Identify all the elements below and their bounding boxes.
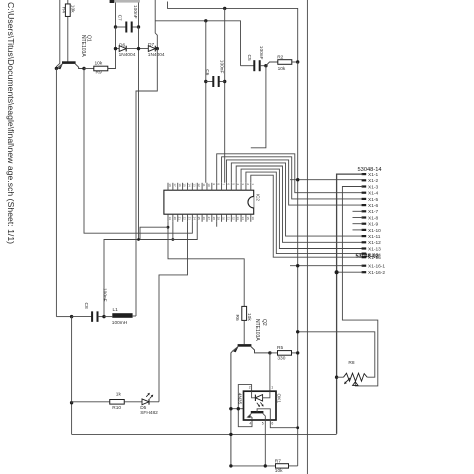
svg-text:6: 6	[271, 421, 273, 425]
node Q2 rail bottom junction	[229, 433, 232, 436]
potentiometer R8	[344, 373, 368, 381]
svg-text:10k: 10k	[275, 468, 283, 474]
node Q2 right junction	[268, 351, 271, 354]
svg-text:100nF: 100nF	[132, 5, 138, 19]
svg-text:X1-10: X1-10	[368, 228, 381, 234]
svg-text:4: 4	[249, 421, 251, 425]
wire transformer left pin down	[115, 3, 117, 28]
svg-text:X1-5: X1-5	[368, 197, 378, 203]
svg-text:28: 28	[212, 217, 216, 221]
node R7 row left	[229, 464, 232, 467]
node C6 left	[204, 80, 207, 83]
wire C6 right lead	[219, 81, 225, 83]
wire Q2 to R5	[270, 352, 278, 354]
node X1-16-1 rail junction	[296, 264, 299, 267]
node pin6 rail junction	[296, 426, 299, 429]
svg-text:X1-16-1: X1-16-1	[368, 264, 385, 270]
wire C7 left	[116, 26, 127, 28]
svg-text:10k: 10k	[69, 5, 75, 13]
svg-text:32: 32	[231, 217, 235, 221]
svg-text:24: 24	[192, 217, 196, 221]
svg-text:10: 10	[207, 183, 211, 187]
diode D7	[148, 46, 155, 52]
svg-text:19: 19	[168, 217, 172, 221]
wire pin stub 1	[216, 222, 218, 227]
wire R10 row	[72, 401, 110, 404]
svg-text:26: 26	[202, 217, 206, 221]
svg-text:NTE103A: NTE103A	[80, 35, 86, 57]
svg-text:12: 12	[197, 183, 201, 187]
OK1 internal LED	[252, 391, 256, 398]
node C5 right junction	[264, 64, 267, 67]
OK1 internal phototransistor	[251, 411, 264, 413]
svg-text:X1-16-2: X1-16-2	[368, 270, 385, 276]
svg-text:36: 36	[251, 217, 255, 221]
wire Q1 collector from top	[56, 0, 59, 68]
svg-text:C5: C5	[246, 55, 252, 61]
svg-text:C6: C6	[204, 69, 210, 75]
svg-text:25: 25	[197, 217, 201, 221]
wire transformer right pin down	[138, 3, 140, 28]
svg-text:R5: R5	[277, 345, 283, 351]
svg-text:Q2: Q2	[261, 319, 267, 326]
wire R7 right to rail	[289, 465, 298, 467]
svg-text:R7: R7	[275, 459, 281, 465]
svg-text:10k: 10k	[95, 61, 103, 67]
svg-text:31: 31	[226, 217, 230, 221]
svg-text:18: 18	[168, 183, 172, 187]
transistor Q2	[238, 344, 252, 347]
wire rail R2/X1-2 vertical	[297, 62, 299, 466]
svg-text:X1-9: X1-9	[368, 222, 378, 228]
node C7 left	[114, 25, 117, 28]
svg-text:29: 29	[217, 217, 221, 221]
svg-text:100nF: 100nF	[219, 60, 225, 74]
svg-text:16: 16	[178, 183, 182, 187]
svg-text:20: 20	[173, 217, 177, 221]
wire Q1 to R9	[84, 68, 94, 70]
svg-text:X1-8: X1-8	[368, 215, 378, 221]
resistor R7	[276, 464, 289, 468]
node R8 feed rail junction	[296, 330, 299, 333]
transistor Q1	[62, 61, 76, 64]
wire D5 to riser	[149, 401, 159, 403]
wire staircase IC to connector X1-4..X1-15	[217, 154, 363, 193]
svg-text:C7: C7	[116, 15, 122, 21]
wire D6 to D7	[126, 48, 148, 50]
diode D5 SFH482	[142, 399, 149, 405]
svg-text:R8: R8	[348, 360, 354, 366]
wire Q1 emitter rail down	[55, 68, 57, 316]
transformer bottom edge (cut off)	[110, 0, 140, 3]
svg-text:C:\Users\Titus\Documents\eagle: C:\Users\Titus\Documents\eagle\final\new…	[6, 2, 16, 244]
resistor R9	[94, 66, 108, 71]
node link loop junction	[237, 407, 240, 410]
capacitor C6	[212, 76, 214, 87]
svg-text:27: 27	[207, 217, 211, 221]
resistor R10	[110, 400, 125, 405]
svg-text:5: 5	[262, 421, 264, 425]
svg-text:X1-7: X1-7	[368, 209, 378, 215]
node link rail junction	[229, 407, 232, 410]
svg-text:OK1: OK1	[276, 394, 282, 404]
node R8 left rail junction	[335, 376, 338, 379]
wire X1-2 row	[290, 179, 363, 181]
svg-text:35: 35	[246, 217, 250, 221]
wire R9 to D6 column	[108, 49, 116, 69]
wire left rail down	[71, 317, 73, 435]
svg-text:13: 13	[192, 183, 196, 187]
wire pin2 down	[172, 222, 174, 240]
wire R7 row	[231, 465, 276, 467]
wire C7-left down to D6	[116, 27, 120, 49]
wire bottom rail	[72, 433, 337, 435]
svg-text:100nF: 100nF	[102, 288, 108, 302]
diode D6	[119, 46, 126, 52]
svg-text:330: 330	[277, 355, 285, 361]
svg-text:X1-11: X1-11	[368, 234, 381, 240]
svg-text:D6: D6	[119, 43, 125, 49]
node Q1 emitter junction	[55, 67, 58, 70]
svg-text:14: 14	[187, 183, 191, 187]
svg-text:R10: R10	[112, 405, 121, 411]
wire R10 to D5	[125, 401, 142, 403]
wire R4 to Q1 base	[67, 17, 69, 62]
wire R6 to Q2 base	[243, 320, 245, 344]
node C6 right	[223, 80, 226, 83]
wire line B to C5	[241, 65, 254, 67]
capacitor C5	[253, 60, 255, 71]
node R2 rail junction	[296, 60, 299, 63]
wire OK1 pin1 from Q2	[269, 353, 271, 391]
wire C5 to R2	[266, 62, 278, 66]
svg-text:1k: 1k	[116, 391, 122, 397]
svg-text:34: 34	[241, 217, 245, 221]
svg-text:17: 17	[173, 183, 177, 187]
wire X1-7..X1-10 stubs	[353, 210, 363, 212]
op-amp IC2 microcontroller	[164, 190, 254, 214]
svg-text:15: 15	[183, 183, 187, 187]
wire C5 right	[260, 65, 266, 67]
node C7 right	[137, 25, 140, 28]
wire C5 net to IC pin	[251, 66, 266, 148]
node R10 row left	[70, 401, 73, 404]
node line A / C6 drop	[223, 7, 226, 10]
wire C8 lead	[72, 316, 92, 318]
wire C6 left lead	[206, 81, 213, 83]
svg-text:1N4004: 1N4004	[119, 52, 136, 58]
node pin1/h1 junction	[167, 226, 170, 229]
wire C6 right drop to IC	[224, 8, 226, 182]
wire C8 right	[98, 316, 104, 318]
wire Q2-rail to loop link	[229, 408, 243, 410]
svg-text:D7: D7	[148, 42, 154, 48]
svg-text:21: 21	[178, 217, 182, 221]
node C8 right junction	[102, 315, 105, 318]
svg-text:NTE103A: NTE103A	[254, 319, 260, 341]
wire X1-1 to rail	[337, 174, 363, 434]
wire R2 to rail	[292, 61, 298, 63]
node pin2 junction	[171, 238, 174, 241]
svg-text:4N35: 4N35	[237, 393, 243, 405]
svg-text:X1-12: X1-12	[368, 240, 381, 246]
node C8 feed/diode junction	[137, 238, 140, 241]
resistor R2	[278, 60, 292, 65]
svg-text:2: 2	[249, 386, 251, 390]
svg-text:1: 1	[271, 386, 273, 390]
svg-text:X1-15: X1-15	[368, 255, 381, 261]
wire D7 riser from top edge	[155, 0, 157, 49]
node line B / C6 drop	[204, 19, 207, 22]
svg-text:33: 33	[236, 217, 240, 221]
wire C8 row left	[56, 316, 71, 318]
svg-text:X1-6: X1-6	[368, 203, 378, 209]
node diode mid junction	[137, 47, 140, 50]
resistor R6	[242, 306, 247, 320]
wire D5 net from IC	[159, 222, 187, 402]
svg-text:1N4004: 1N4004	[148, 52, 165, 58]
svg-text:53048-14: 53048-14	[358, 167, 382, 173]
wire bus line A	[168, 2, 298, 63]
node X1-16-2 junction	[335, 270, 339, 274]
node Q1 right junction	[82, 67, 85, 70]
wire L1 right	[133, 315, 136, 317]
svg-text:R2: R2	[277, 54, 283, 60]
wire main right rail	[306, 0, 308, 474]
optocoupler OK1 box	[244, 391, 277, 420]
node C8 row left riser	[70, 315, 73, 318]
svg-text:100nF: 100nF	[258, 46, 264, 60]
wire IC pin1 down to R6 feed	[168, 222, 244, 306]
svg-text:L1: L1	[113, 307, 119, 313]
capacitor C8	[91, 311, 93, 322]
resistor R4	[65, 4, 70, 17]
wire C6 left drop to IC	[205, 21, 207, 183]
svg-text:22: 22	[183, 217, 187, 221]
svg-text:10k: 10k	[278, 66, 286, 72]
node X1-2 rail junction	[296, 178, 299, 181]
svg-text:X1-13: X1-13	[368, 246, 381, 252]
wire bus line B	[155, 21, 240, 66]
svg-text:11: 11	[202, 183, 206, 186]
wire X1-16-1 row	[290, 265, 363, 267]
node R7 row pin5	[264, 464, 267, 467]
wire h1 to diode column	[140, 227, 168, 239]
svg-text:100mH: 100mH	[112, 320, 128, 326]
wire OK1 pin2 loop	[238, 385, 252, 427]
wire OK1 pin5 down	[264, 420, 266, 466]
node D6 anode junction	[114, 47, 117, 50]
svg-text:23: 23	[187, 217, 191, 221]
node R5 rail junction	[296, 351, 299, 354]
svg-text:X1-1: X1-1	[368, 172, 378, 178]
wire X1-3 to R8 loop	[342, 187, 377, 386]
capacitor C7	[125, 22, 127, 33]
wire R8 left lead	[337, 376, 344, 378]
svg-text:X1-4: X1-4	[368, 191, 378, 197]
wire Q1 net to IC	[84, 69, 192, 234]
wire D7 cathode down-around to L1	[136, 49, 157, 316]
svg-text:SFH482: SFH482	[140, 410, 158, 416]
wire R5 to rail	[292, 352, 298, 354]
svg-text:R9: R9	[96, 70, 102, 76]
wire top edge to R4	[67, 0, 69, 4]
wire OK1 pin6 to rail	[270, 420, 297, 428]
wire C7 right	[132, 26, 139, 28]
wire C8 to L1	[104, 316, 112, 318]
svg-text:C8: C8	[83, 303, 89, 309]
wire C7-right down	[138, 27, 140, 240]
wire R8 feed from rail	[298, 332, 375, 377]
wire X1-16-2 row	[337, 271, 363, 273]
inductor L1	[112, 313, 132, 318]
svg-text:X1-3: X1-3	[368, 184, 378, 190]
resistor R5	[278, 351, 292, 356]
wire C8 feed row	[104, 222, 197, 316]
node D7 cathode junction	[156, 47, 159, 50]
svg-text:10k: 10k	[246, 313, 252, 321]
svg-text:IC2: IC2	[256, 194, 261, 202]
svg-text:R6: R6	[234, 315, 240, 321]
svg-text:30: 30	[222, 217, 226, 221]
svg-text:X1-2: X1-2	[368, 178, 378, 184]
